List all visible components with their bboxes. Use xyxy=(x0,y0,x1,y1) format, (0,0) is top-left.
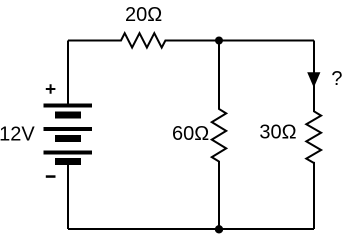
svg-text:12V: 12V xyxy=(0,123,35,145)
svg-text:20Ω: 20Ω xyxy=(125,4,162,26)
svg-text:60Ω: 60Ω xyxy=(172,123,209,145)
svg-text:?: ? xyxy=(331,68,342,90)
svg-text:30Ω: 30Ω xyxy=(259,122,296,144)
